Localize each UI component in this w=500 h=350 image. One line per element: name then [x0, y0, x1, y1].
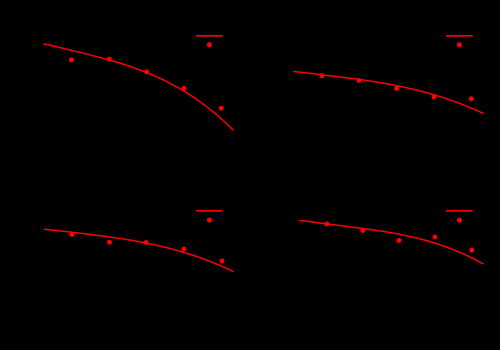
subplot 2 data point 3: [394, 86, 399, 91]
subplot 1 data point 2: [107, 57, 112, 62]
subplot 2 legend marker sample: [457, 42, 462, 47]
subplot 3 data point 1: [69, 232, 74, 237]
subplot 2 data point 4: [432, 94, 437, 99]
subplot 2 data point 5: [469, 96, 474, 101]
subplot 3 data point 4: [182, 247, 187, 252]
subplot 1 (top-left) fit curve: [44, 44, 233, 130]
subplot 3 legend line sample: [196, 210, 223, 212]
subplot 4 data point 1: [324, 222, 329, 227]
subplot 2 (top-right) fit curve: [294, 72, 483, 114]
subplot 1 legend line sample: [196, 35, 223, 37]
subplot 1 data point 4: [182, 86, 187, 91]
subplot 1 data point 5: [219, 106, 224, 111]
subplot 2 legend line sample: [446, 35, 473, 37]
subplot 1 data point 1: [69, 57, 74, 62]
subplot 1 legend marker sample: [207, 42, 212, 47]
subplot 3 data point 2: [107, 240, 112, 245]
subplot 3 data point 5: [220, 259, 225, 264]
subplot 1 data point 3: [144, 69, 149, 74]
subplot 3 data point 3: [144, 240, 149, 245]
subplot 4 data point 4: [433, 235, 438, 240]
subplot 4 legend marker sample: [457, 218, 462, 223]
subplot 3 (bottom-left) fit curve: [45, 229, 234, 271]
subplot 3 legend marker sample: [207, 218, 212, 223]
subplot 2 data point 2: [357, 78, 362, 83]
subplot 4 data point 2: [360, 228, 365, 233]
subplot 4 data point 5: [469, 248, 474, 253]
subplot 4 (bottom-right) fit curve: [300, 221, 483, 264]
subplot 4 data point 3: [397, 238, 402, 243]
subplot 4 legend line sample: [446, 210, 473, 212]
subplot 2 data point 1: [320, 73, 325, 78]
